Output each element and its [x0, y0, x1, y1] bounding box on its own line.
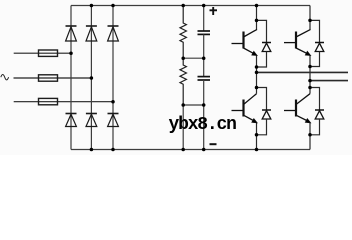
fuse F3	[39, 98, 58, 104]
wire R column to bottom bus	[182, 105, 184, 150]
wire AC phase 1	[14, 52, 71, 54]
capacitor C1	[203, 6, 205, 32]
wire bottom DC bus	[71, 149, 310, 151]
junction dots inverter left leg	[255, 19, 259, 23]
wire C column to bottom bus	[203, 105, 205, 150]
wire output phase B	[310, 80, 348, 82]
wire rectifier leg 1	[70, 6, 72, 150]
junction dots tie 1	[181, 56, 185, 60]
junction dots bottom bus	[90, 148, 94, 152]
diode D10 (Q4 antiparallel)	[310, 88, 320, 111]
fuse F2	[39, 75, 58, 81]
junction dots inverter right leg	[308, 19, 312, 23]
label - (negative DC)	[210, 143, 217, 145]
transistor Q1	[242, 32, 244, 49]
wire top DC bus	[71, 5, 310, 7]
AC source symbol	[1, 75, 9, 80]
resistor R2	[180, 58, 186, 105]
wire rectifier leg 2	[90, 6, 92, 150]
diode D1	[66, 25, 77, 27]
transistor Q3	[242, 100, 244, 117]
junction dots tie 2	[181, 103, 185, 107]
capacitor C2	[203, 58, 205, 76]
label + (positive DC)	[210, 7, 218, 15]
junction dot AC2-leg2	[90, 76, 94, 80]
wire midpoint tie 1	[183, 57, 204, 59]
junction dots top bus	[90, 4, 94, 8]
watermark text ybx8.cn	[169, 116, 236, 134]
wire inverter right leg	[309, 6, 311, 30]
diode D9 (Q2 antiparallel)	[310, 20, 320, 42]
transistor Q4	[295, 100, 297, 117]
junction dot AC3-leg3	[111, 100, 115, 104]
diode D4	[66, 113, 77, 115]
diode D6	[108, 113, 119, 115]
wire rectifier leg 3	[112, 6, 114, 150]
diode D2	[86, 25, 97, 27]
diode D8 (Q3 antiparallel)	[257, 88, 267, 111]
resistor R1	[180, 6, 186, 59]
diode D7 (Q1 antiparallel)	[257, 20, 267, 42]
transistor Q2	[295, 32, 297, 49]
diode D3	[108, 25, 119, 27]
wire inverter left leg	[256, 6, 258, 30]
wire midpoint tie 2	[183, 104, 204, 106]
wire AC phase 3	[14, 101, 113, 103]
junction dot AC1-leg1	[69, 51, 73, 55]
diode D5	[86, 113, 97, 115]
wire output phase A	[257, 71, 349, 73]
fuse F1	[39, 50, 58, 56]
wire AC phase 2	[14, 77, 92, 79]
